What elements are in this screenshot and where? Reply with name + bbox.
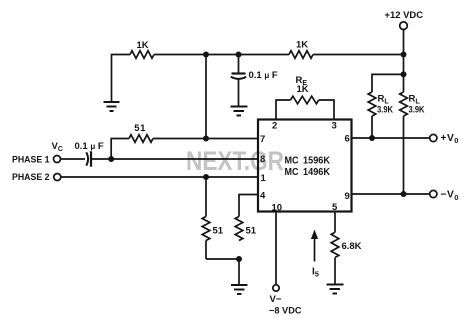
node 51 commons — [236, 256, 242, 262]
wire 6.8K to ground — [334, 258, 336, 284]
svg-text:51: 51 — [246, 226, 257, 237]
wire bias rail middle — [154, 54, 289, 56]
resistor R6 6.8K — [331, 232, 339, 257]
wire pin3 stub — [319, 100, 334, 120]
wire phase1 to cap — [61, 158, 86, 160]
resistor RE 1K — [291, 96, 319, 104]
wire bias rail to +12V line — [313, 54, 404, 56]
svg-text:1K: 1K — [297, 84, 309, 95]
svg-text:0.1 μ F: 0.1 μ F — [249, 70, 278, 81]
wire pin4 to 51 — [239, 195, 258, 217]
wire pin 9 to -V0 — [352, 193, 430, 195]
wire top bias rail — [112, 55, 131, 102]
svg-text:V−: V− — [270, 294, 282, 305]
wire 51 bottoms joined — [206, 259, 239, 284]
svg-text:9: 9 — [345, 191, 350, 202]
svg-text:51: 51 — [213, 226, 224, 237]
node bias rail / pin7 — [203, 136, 209, 142]
wire RL right down to -V0 line — [403, 116, 405, 194]
value 0.1uF — [249, 70, 278, 81]
wire pin 5 stub — [334, 212, 336, 233]
wire pin2 stub — [276, 100, 291, 120]
node +12V / bias rail — [401, 52, 407, 58]
node RL/-V0 junction — [401, 191, 407, 197]
svg-text:2: 2 — [272, 121, 277, 132]
svg-text:MC: MC — [285, 156, 299, 167]
terminal +12 VDC — [400, 22, 408, 30]
wire 51 branch up — [111, 139, 129, 160]
ground (6.8K) — [327, 285, 344, 294]
capacitor C1 0.1uF (bypass) — [238, 55, 240, 73]
svg-text:1596K: 1596K — [303, 156, 331, 167]
wire cap to pin 8 — [91, 158, 258, 160]
node RL/+V0 junction — [369, 135, 375, 141]
resistor R3 51 (carrier) — [129, 135, 153, 143]
svg-text:PHASE 2: PHASE 2 — [12, 172, 50, 183]
resistor RL 3.9K (left) — [368, 92, 376, 116]
svg-text:3.9K: 3.9K — [409, 105, 425, 116]
wire RL branch left — [372, 74, 404, 92]
svg-text:6: 6 — [345, 134, 350, 145]
node +12V / RL branch — [401, 71, 407, 77]
svg-text:6.8K: 6.8K — [342, 241, 362, 252]
node bypass cap junction — [236, 52, 242, 58]
svg-text:3.9K: 3.9K — [377, 105, 393, 116]
svg-text:1496K: 1496K — [303, 167, 331, 178]
wire pin 6 to +V0 — [352, 137, 430, 139]
svg-text:1: 1 — [261, 173, 267, 184]
capacitor C2 0.1uF (input coupling) — [86, 152, 88, 165]
terminal PHASE 1 — [12, 141, 63, 166]
node bias/pin7 junction — [203, 52, 209, 58]
wire pin 10 stub — [275, 212, 277, 286]
node coupling cap / 51 branch — [108, 156, 114, 162]
wire bias vertical to pin7 rail — [205, 55, 207, 139]
IC U1 MC1596K / MC1496K — [258, 120, 352, 212]
wire 51 to pin 7 — [153, 138, 258, 140]
resistor R1 1K (left bias) — [130, 51, 154, 59]
svg-text:0.1 μ F: 0.1 μ F — [75, 141, 104, 152]
terminal -V0 — [430, 190, 437, 197]
ground (left bias) — [104, 102, 120, 111]
wire 51 left down — [205, 241, 207, 260]
svg-text:5: 5 — [332, 202, 338, 213]
svg-text:1K: 1K — [137, 40, 149, 51]
wire pin1 bias 51 vertical — [205, 177, 207, 217]
svg-text:MC: MC — [285, 167, 299, 178]
svg-text:−8 VDC: −8 VDC — [269, 306, 302, 317]
resistor R2 1K (right bias) — [289, 51, 313, 59]
wire RL left to +V0 line — [371, 116, 373, 138]
terminal V- — [273, 285, 279, 291]
node phase2 / 51 bias branch — [203, 174, 209, 180]
svg-text:+12 VDC: +12 VDC — [385, 10, 424, 21]
svg-text:NEXT.GR: NEXT.GR — [186, 146, 284, 176]
current arrow I5 — [314, 237, 316, 262]
svg-text:4: 4 — [260, 191, 266, 202]
resistor R4 51 (pin1 bias) — [202, 217, 210, 241]
ground (input bias) — [231, 285, 248, 294]
resistor R5 51 (pin4 bias) — [235, 217, 243, 241]
resistor RL 3.9K (right) — [400, 92, 408, 116]
svg-text:1K: 1K — [296, 40, 308, 51]
wire +12V vertical — [403, 30, 405, 93]
svg-text:PHASE 1: PHASE 1 — [12, 155, 50, 166]
svg-text:7: 7 — [260, 134, 265, 145]
ground (bypass cap) — [231, 107, 248, 116]
svg-text:3: 3 — [332, 121, 337, 132]
svg-text:8: 8 — [260, 154, 265, 165]
wire phase2 to pin 1 — [61, 176, 258, 178]
svg-text:51: 51 — [134, 123, 146, 134]
terminal +V0 — [430, 134, 437, 141]
